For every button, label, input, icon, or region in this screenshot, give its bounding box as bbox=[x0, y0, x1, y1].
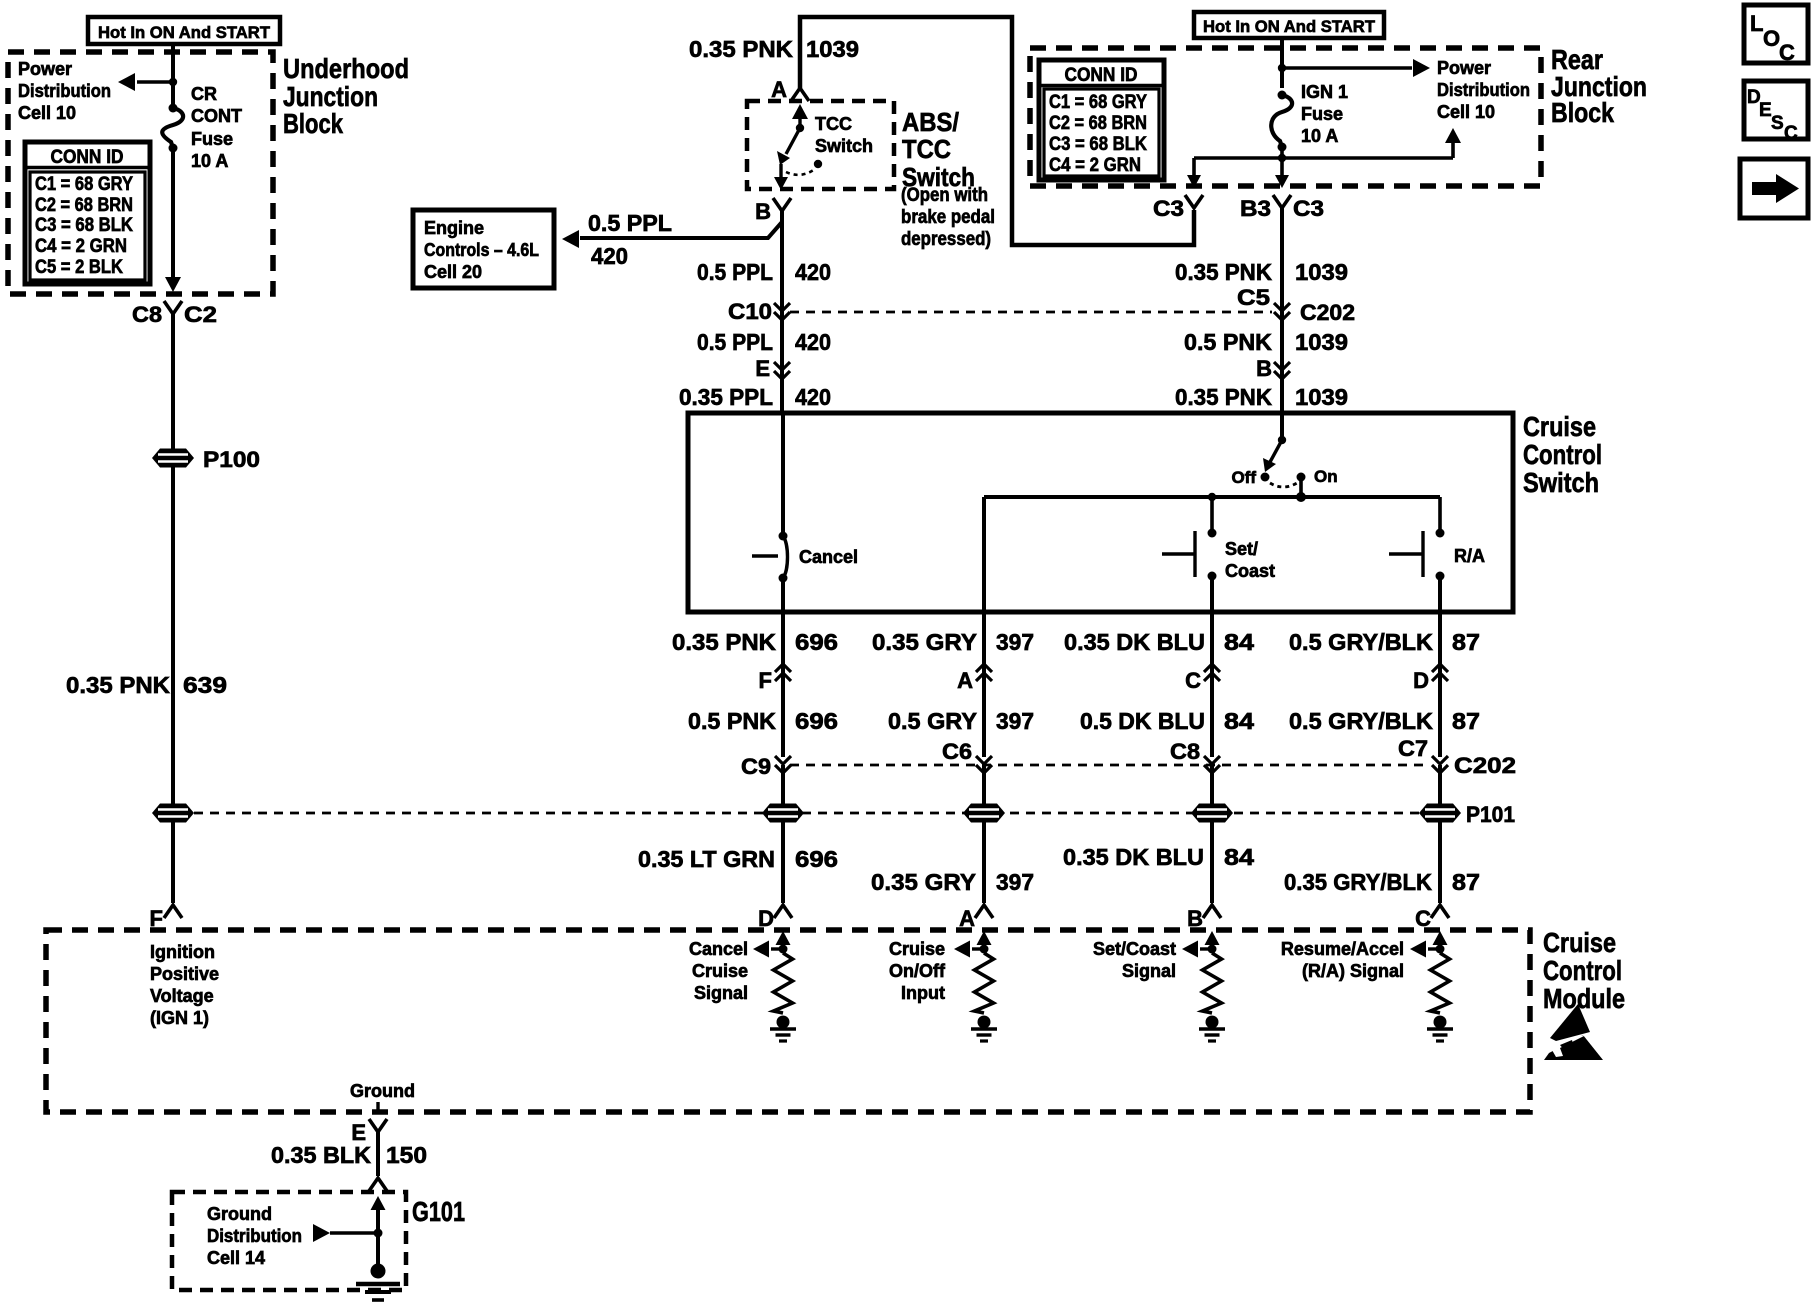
wire C8 to grommet bbox=[1210, 765, 1214, 805]
svg-text:0.5 GRY/BLK: 0.5 GRY/BLK bbox=[1289, 629, 1433, 655]
svg-text:Module: Module bbox=[1543, 983, 1625, 1014]
pin D (switch output) bbox=[1413, 664, 1448, 693]
svg-text:C3: C3 bbox=[1293, 196, 1324, 221]
svg-text:Set/Coast: Set/Coast bbox=[1093, 939, 1176, 959]
svg-text:C4 = 2 GRN: C4 = 2 GRN bbox=[1049, 155, 1141, 176]
wire label 0.5 PNK 1039 bbox=[1184, 329, 1348, 355]
in-line connector P100 bbox=[152, 447, 260, 472]
svg-text:696: 696 bbox=[795, 629, 838, 655]
node G101 junction bbox=[374, 1229, 383, 1238]
internal bus (on feed) bbox=[984, 495, 1440, 499]
switch R/A (resume/accel) bbox=[1389, 497, 1485, 612]
svg-text:420: 420 bbox=[795, 329, 831, 355]
svg-text:0.5 GRY: 0.5 GRY bbox=[888, 708, 977, 734]
svg-text:brake pedal: brake pedal bbox=[901, 207, 995, 228]
module input Resume/Accel: node bbox=[1436, 945, 1445, 954]
svg-text:(Open with: (Open with bbox=[901, 185, 988, 206]
svg-text:0.35 PNK: 0.35 PNK bbox=[689, 36, 793, 62]
ground (module Cancel) bbox=[770, 1016, 796, 1042]
module input Set/Coast: node bbox=[1208, 945, 1217, 954]
svg-text:C7: C7 bbox=[1398, 736, 1428, 761]
svg-text:Fuse: Fuse bbox=[1301, 104, 1343, 124]
svg-text:Cell 10: Cell 10 bbox=[18, 103, 76, 123]
pull-up resistor (Cancel) bbox=[774, 953, 793, 1013]
svg-text:Positive: Positive bbox=[150, 964, 219, 984]
wire label 0.35 DK BLU 84 bbox=[1064, 629, 1254, 655]
connector C8 at C202 bbox=[1170, 739, 1220, 773]
svg-text:Hot In ON And START: Hot In ON And START bbox=[98, 23, 271, 42]
svg-text:A: A bbox=[771, 77, 787, 102]
svg-text:E: E bbox=[1759, 100, 1772, 121]
wire B3 down to cruise switch bbox=[1280, 208, 1284, 413]
svg-text:0.35 GRY/BLK: 0.35 GRY/BLK bbox=[1284, 869, 1432, 895]
svg-text:1039: 1039 bbox=[1295, 384, 1348, 410]
wire label 0.35 GRY 397 bbox=[872, 629, 1034, 655]
wire On to bus bbox=[1296, 477, 1306, 502]
wire grommet to module pin A bbox=[982, 822, 986, 903]
svg-text:Switch: Switch bbox=[815, 136, 873, 156]
svg-text:Cancel: Cancel bbox=[689, 939, 748, 959]
svg-text:Cruise: Cruise bbox=[692, 961, 748, 981]
svg-text:397: 397 bbox=[996, 869, 1034, 895]
svg-text:F: F bbox=[759, 668, 772, 693]
wire label 0.35 GRY/BLK 87 bbox=[1284, 869, 1480, 895]
switch Cancel bbox=[752, 413, 858, 612]
forward arrow nav box bbox=[1740, 159, 1808, 218]
svg-text:C1 = 68 GRY: C1 = 68 GRY bbox=[35, 174, 133, 195]
svg-text:Distribution: Distribution bbox=[1437, 80, 1530, 100]
svg-text:Switch: Switch bbox=[1523, 467, 1599, 498]
svg-text:1039: 1039 bbox=[1295, 329, 1348, 355]
module input Set/Coast: signal arrow bbox=[1182, 941, 1212, 958]
svg-text:P100: P100 bbox=[203, 447, 260, 472]
svg-text:1039: 1039 bbox=[1295, 259, 1348, 285]
node On contact bbox=[1297, 467, 1338, 486]
svg-text:C6: C6 bbox=[942, 739, 972, 764]
module input Resume/Accel: entry arrow bbox=[1433, 931, 1448, 948]
LOC nav box bbox=[1744, 5, 1808, 65]
wire label 0.35 PNK 1039 (above switch) bbox=[1175, 384, 1348, 410]
wire label 0.5 PPL 420 (below B) bbox=[697, 259, 831, 285]
power feed box: Hot In ON And START (rear) bbox=[1194, 12, 1384, 38]
svg-text:On/Off: On/Off bbox=[889, 961, 946, 981]
wire label 0.35 GRY 397 bbox=[871, 869, 1034, 895]
svg-text:Underhood: Underhood bbox=[283, 53, 409, 84]
wire label 0.35 LT GRN 696 bbox=[638, 846, 838, 872]
wire label 0.35 PNK 696 bbox=[672, 629, 838, 655]
svg-text:C1 = 68 GRY: C1 = 68 GRY bbox=[1049, 92, 1147, 113]
svg-text:Cruise: Cruise bbox=[1543, 927, 1616, 958]
node junction at IGN1 fuse top bbox=[1278, 64, 1286, 72]
power feed box: Hot In ON And START (underhood) bbox=[88, 17, 280, 44]
pin D (cruise module) bbox=[758, 905, 792, 931]
wire label 0.35 PPL 420 bbox=[679, 384, 831, 410]
svg-text:D: D bbox=[1413, 668, 1429, 693]
label Cruise Control Module bbox=[1543, 927, 1625, 1014]
module input Set/Coast: entry arrow bbox=[1205, 931, 1220, 948]
wire 84 switch to C202 at C8 bbox=[1210, 612, 1214, 757]
ground (module Cruise) bbox=[971, 1016, 997, 1042]
switch on/off arm bbox=[1263, 413, 1286, 472]
label Underhood Junction Block bbox=[283, 53, 409, 139]
grommet P101 column B bbox=[1191, 804, 1233, 823]
svg-text:696: 696 bbox=[795, 846, 838, 872]
svg-text:C2: C2 bbox=[184, 302, 217, 327]
svg-text:C3 = 68 BLK: C3 = 68 BLK bbox=[35, 215, 133, 236]
svg-text:397: 397 bbox=[996, 629, 1034, 655]
svg-text:Fuse: Fuse bbox=[191, 129, 233, 149]
svg-text:Ground: Ground bbox=[207, 1204, 272, 1224]
svg-text:Power: Power bbox=[18, 59, 72, 79]
wire grommet to module pin C bbox=[1438, 822, 1442, 903]
svg-text:CONN ID: CONN ID bbox=[51, 147, 124, 168]
svg-text:C: C bbox=[1784, 123, 1798, 144]
node junction at CR CONT fuse top bbox=[169, 78, 177, 86]
svg-text:C5: C5 bbox=[1237, 285, 1270, 310]
svg-text:ABS/: ABS/ bbox=[902, 107, 959, 137]
wire label 0.5 GRY/BLK 87 bbox=[1289, 629, 1480, 655]
svg-text:0.35 GRY: 0.35 GRY bbox=[872, 629, 977, 655]
ABS/TCC switch dashed box bbox=[747, 101, 894, 189]
svg-text:84: 84 bbox=[1224, 629, 1254, 655]
svg-text:Cruise: Cruise bbox=[1523, 411, 1596, 442]
ground (module Set/Coast) bbox=[1199, 1016, 1225, 1042]
label IGN 1 Fuse 10 A bbox=[1301, 82, 1348, 146]
svg-text:150: 150 bbox=[386, 1142, 427, 1168]
svg-text:A: A bbox=[957, 668, 973, 693]
svg-text:87: 87 bbox=[1452, 629, 1480, 655]
svg-text:(IGN 1): (IGN 1) bbox=[150, 1008, 209, 1028]
exit arrow to B3 bbox=[1275, 158, 1289, 188]
svg-text:TCC: TCC bbox=[815, 114, 852, 134]
wire 87 switch to C202 at C7 bbox=[1438, 612, 1442, 757]
svg-text:Power: Power bbox=[1437, 58, 1491, 78]
node Off contact bbox=[1231, 468, 1269, 487]
svg-text:0.35 LT GRN: 0.35 LT GRN bbox=[638, 846, 775, 872]
svg-text:Control: Control bbox=[1543, 955, 1622, 986]
svg-text:84: 84 bbox=[1224, 844, 1254, 870]
svg-text:420: 420 bbox=[795, 259, 831, 285]
pin C (switch output) bbox=[1185, 664, 1220, 693]
wire from rear Hot feed bbox=[1280, 38, 1284, 88]
arrow from ground distribution bbox=[313, 1224, 378, 1242]
svg-text:0.35 PNK: 0.35 PNK bbox=[1175, 384, 1272, 410]
ESD sensitivity symbol bbox=[1544, 1004, 1603, 1060]
svg-text:0.35 PNK: 0.35 PNK bbox=[66, 672, 170, 698]
grommet P101 (left column) bbox=[152, 804, 194, 823]
connector C8/C2 (underhood block bottom) bbox=[132, 301, 217, 327]
module input Cancel: signal arrow bbox=[753, 941, 783, 958]
wire P100 down to P101 grommet bbox=[171, 467, 175, 804]
pin B (ABS/TCC switch) bbox=[755, 198, 791, 224]
pin A (switch output) bbox=[957, 664, 992, 693]
svg-text:Off: Off bbox=[1231, 468, 1256, 487]
label Rear Junction Block bbox=[1551, 44, 1647, 128]
wire label 0.5 PNK 696 bbox=[688, 708, 838, 734]
box Engine Controls - 4.6L Cell 20 bbox=[413, 210, 554, 288]
svg-text:Signal: Signal bbox=[694, 983, 748, 1003]
svg-text:On: On bbox=[1314, 467, 1338, 486]
connector B3/C3 (rear block) bbox=[1240, 195, 1324, 221]
wire C8/C2 down to P100 bbox=[171, 314, 175, 449]
svg-text:C2 = 68 BRN: C2 = 68 BRN bbox=[1049, 113, 1147, 134]
pull-up resistor (Cruise) bbox=[975, 953, 994, 1013]
svg-text:Cruise: Cruise bbox=[889, 939, 945, 959]
svg-text:Hot In ON And START: Hot In ON And START bbox=[1203, 17, 1376, 36]
fuse IGN 1 10 A bbox=[1271, 91, 1292, 152]
svg-text:Controls – 4.6L: Controls – 4.6L bbox=[424, 240, 539, 260]
label CR CONT Fuse 10 A bbox=[191, 84, 242, 171]
wire E to G101 bbox=[376, 1132, 380, 1176]
svg-text:Control: Control bbox=[1523, 439, 1602, 470]
module input Cruise: entry arrow bbox=[977, 931, 992, 948]
CONN ID table (underhood) bbox=[25, 142, 150, 284]
svg-text:Distribution: Distribution bbox=[18, 81, 111, 101]
svg-text:1039: 1039 bbox=[806, 36, 859, 62]
pull-up resistor (Resume/Accel) bbox=[1431, 953, 1450, 1013]
connector E (inline) bbox=[755, 356, 790, 381]
ground (module Resume/Accel) bbox=[1427, 1016, 1453, 1042]
wire B down through C10 to E to switch box bbox=[780, 211, 784, 413]
svg-text:B3: B3 bbox=[1240, 196, 1271, 221]
svg-text:Distribution: Distribution bbox=[207, 1226, 302, 1246]
label Cruise Control Switch bbox=[1523, 411, 1602, 498]
node fuse output junction bbox=[1278, 154, 1286, 162]
arrow up to power distribution cell 10 bbox=[1445, 128, 1461, 158]
connector C9 at C202 bbox=[741, 754, 791, 779]
svg-text:O: O bbox=[1763, 26, 1780, 51]
svg-text:C10: C10 bbox=[728, 299, 772, 324]
svg-text:0.5 PPL: 0.5 PPL bbox=[588, 210, 672, 236]
internal bus fuse output bbox=[1194, 147, 1453, 158]
svg-text:0.5 GRY/BLK: 0.5 GRY/BLK bbox=[1289, 708, 1433, 734]
wire branch B to Engine Controls with arrow bbox=[562, 222, 782, 248]
svg-text:depressed): depressed) bbox=[901, 229, 991, 250]
svg-text:C9: C9 bbox=[741, 754, 771, 779]
svg-text:B: B bbox=[1256, 356, 1272, 381]
ground G101 bbox=[356, 1264, 400, 1301]
svg-text:S: S bbox=[1771, 113, 1784, 134]
wire label 0.35 PNK 1039 (top) bbox=[689, 36, 859, 62]
svg-text:Set/: Set/ bbox=[1225, 539, 1258, 559]
wire label 0.35 BLK 150 bbox=[271, 1142, 427, 1168]
svg-text:E: E bbox=[755, 356, 770, 381]
wire fuse to C8/C2 with exit arrow bbox=[165, 148, 181, 292]
svg-text:P101: P101 bbox=[1466, 802, 1515, 827]
wire grommet to module pin F bbox=[171, 822, 175, 903]
cruise control switch box bbox=[688, 413, 1513, 612]
label TCC Switch (inside) bbox=[815, 114, 873, 156]
wire label 0.35 PNK 639 bbox=[66, 672, 227, 698]
wire net 1039: A up over and down to C3 bbox=[800, 17, 1194, 245]
label Resume/Accel (R/A) Signal bbox=[1281, 939, 1404, 981]
svg-text:0.35 PPL: 0.35 PPL bbox=[679, 384, 773, 410]
svg-text:Voltage: Voltage bbox=[150, 986, 214, 1006]
pin C (cruise module) bbox=[1415, 905, 1449, 931]
dashed arc off-on bbox=[1270, 483, 1297, 487]
connector C7 at C202 bbox=[1398, 736, 1448, 773]
module input Cancel: entry arrow bbox=[776, 931, 791, 948]
label ABS/TCC Switch bbox=[901, 107, 995, 250]
connector C3 (left, rear block) bbox=[1153, 195, 1203, 221]
wire label 0.35 PNK 1039 (below B3) bbox=[1175, 259, 1348, 285]
wire grommet to module pin D bbox=[781, 822, 785, 903]
grommet P101 column A bbox=[963, 804, 1005, 823]
dashed connector line C10-C5 (C202) bbox=[790, 311, 1272, 314]
svg-text:TCC: TCC bbox=[902, 134, 951, 164]
label Cruise On/Off Input bbox=[889, 939, 946, 1003]
svg-text:Engine: Engine bbox=[424, 218, 484, 238]
svg-text:0.35 DK BLU: 0.35 DK BLU bbox=[1064, 629, 1205, 655]
svg-text:10 A: 10 A bbox=[191, 151, 228, 171]
pin B (cruise module) bbox=[1187, 905, 1221, 931]
svg-text:C202: C202 bbox=[1300, 300, 1355, 325]
svg-text:Ground: Ground bbox=[350, 1081, 415, 1101]
svg-text:420: 420 bbox=[795, 384, 831, 410]
svg-text:10 A: 10 A bbox=[1301, 126, 1338, 146]
module input Cruise: signal arrow bbox=[954, 941, 984, 958]
wire label 0.35 DK BLU 84 bbox=[1063, 844, 1254, 870]
pin E (cruise module ground) bbox=[351, 1119, 387, 1145]
svg-text:0.5 PPL: 0.5 PPL bbox=[697, 259, 773, 285]
svg-text:Cell 14: Cell 14 bbox=[207, 1248, 265, 1268]
connector B (inline) bbox=[1256, 356, 1290, 381]
wire grommet to module pin B bbox=[1210, 822, 1214, 903]
svg-text:Cancel: Cancel bbox=[799, 547, 858, 567]
svg-text:87: 87 bbox=[1452, 869, 1480, 895]
svg-text:G101: G101 bbox=[412, 1196, 465, 1227]
wire label 0.5 GRY 397 bbox=[888, 708, 1034, 734]
svg-text:Block: Block bbox=[1551, 97, 1614, 128]
svg-text:397: 397 bbox=[996, 708, 1034, 734]
svg-text:639: 639 bbox=[183, 672, 227, 698]
rear junction block dashed box bbox=[1030, 48, 1541, 186]
svg-text:0.35 PNK: 0.35 PNK bbox=[1175, 259, 1272, 285]
svg-text:C2 = 68 BRN: C2 = 68 BRN bbox=[35, 195, 133, 216]
svg-text:84: 84 bbox=[1224, 708, 1254, 734]
svg-text:Resume/Accel: Resume/Accel bbox=[1281, 939, 1404, 959]
label Ground Distribution Cell 14 bbox=[207, 1204, 302, 1268]
svg-text:Signal: Signal bbox=[1122, 961, 1176, 981]
wire from Hot feed into underhood block bbox=[171, 44, 175, 106]
svg-text:Block: Block bbox=[283, 108, 343, 139]
svg-text:0.5 DK BLU: 0.5 DK BLU bbox=[1080, 708, 1205, 734]
ground distribution dashed box G101 bbox=[172, 1192, 465, 1290]
wire C7 to grommet bbox=[1438, 765, 1442, 805]
svg-text:C5 = 2 BLK: C5 = 2 BLK bbox=[35, 257, 123, 278]
wire bus left leg down to A out bbox=[982, 497, 986, 612]
pin A (cruise module) bbox=[959, 905, 993, 931]
label Power Distribution Cell 10 (underhood) bbox=[18, 59, 111, 123]
connector C10 bbox=[728, 299, 790, 324]
svg-text:CONN ID: CONN ID bbox=[1065, 65, 1138, 86]
pull-up resistor (Set/Coast) bbox=[1203, 953, 1222, 1013]
svg-text:Coast: Coast bbox=[1225, 561, 1275, 581]
wire label 0.5 GRY/BLK 87 bbox=[1289, 708, 1480, 734]
svg-text:Ignition: Ignition bbox=[150, 942, 215, 962]
pin F (switch output) bbox=[759, 664, 791, 693]
svg-text:0.5 PNK: 0.5 PNK bbox=[1184, 329, 1272, 355]
switch Set/Coast bbox=[1162, 493, 1275, 612]
grommet P101 column C bbox=[1419, 804, 1461, 823]
svg-text:C3 = 68 BLK: C3 = 68 BLK bbox=[1049, 134, 1147, 155]
pin A (ABS/TCC switch) bbox=[771, 77, 809, 102]
exit arrow to C3 (left) bbox=[1187, 158, 1201, 188]
fuse CR CONT 10 A bbox=[162, 104, 183, 153]
wire C9 to grommet bbox=[781, 765, 785, 805]
svg-text:L: L bbox=[1750, 11, 1763, 36]
svg-text:0.35 GRY: 0.35 GRY bbox=[871, 869, 976, 895]
svg-text:0.5 PNK: 0.5 PNK bbox=[688, 708, 776, 734]
svg-text:IGN 1: IGN 1 bbox=[1301, 82, 1348, 102]
svg-text:C202: C202 bbox=[1454, 753, 1516, 778]
dashed connector line C202 (lower) bbox=[790, 753, 1516, 778]
module input Cruise: node bbox=[980, 945, 989, 954]
svg-text:0.35 BLK: 0.35 BLK bbox=[271, 1142, 371, 1168]
wire 397 switch to C202 at C6 bbox=[982, 612, 986, 757]
svg-text:420: 420 bbox=[591, 243, 628, 269]
pin F (cruise module, IGN feed) bbox=[150, 905, 182, 931]
dashed pass-through line P101 bbox=[194, 802, 1515, 827]
underhood junction block dashed box bbox=[8, 52, 273, 294]
svg-text:Input: Input bbox=[901, 983, 945, 1003]
svg-text:R/A: R/A bbox=[1454, 546, 1485, 566]
svg-text:87: 87 bbox=[1452, 708, 1480, 734]
svg-text:696: 696 bbox=[795, 708, 838, 734]
module input Cancel: node bbox=[779, 945, 788, 954]
svg-text:CR: CR bbox=[191, 84, 217, 104]
module input Resume/Accel: signal arrow bbox=[1410, 941, 1440, 958]
svg-text:0.35 PNK: 0.35 PNK bbox=[672, 629, 776, 655]
wire arrow to Power Distribution (rear) bbox=[1282, 59, 1430, 77]
svg-text:Cell 20: Cell 20 bbox=[424, 262, 482, 282]
wire label 0.5 PPL 420 (to engine controls) bbox=[588, 210, 672, 269]
wire 696 switch to C202 at C9 bbox=[781, 612, 785, 757]
label Cancel Cruise Signal bbox=[689, 939, 748, 1003]
wire C6 to grommet bbox=[982, 765, 986, 805]
connector C6 at C202 bbox=[942, 739, 992, 773]
svg-text:C8: C8 bbox=[1170, 739, 1200, 764]
TCC switch arm and contacts bbox=[774, 104, 822, 190]
label Set/Coast Signal bbox=[1093, 939, 1176, 981]
svg-text:0.5 PPL: 0.5 PPL bbox=[697, 329, 773, 355]
svg-text:(R/A) Signal: (R/A) Signal bbox=[1302, 961, 1404, 981]
svg-text:C: C bbox=[1779, 40, 1795, 65]
svg-text:C3: C3 bbox=[1153, 196, 1184, 221]
svg-text:B: B bbox=[755, 199, 771, 224]
wire arrow to Power Distribution Cell 10 (left) bbox=[118, 73, 173, 91]
wire label 0.5 DK BLU 84 bbox=[1080, 708, 1254, 734]
svg-text:Cell 10: Cell 10 bbox=[1437, 102, 1495, 122]
svg-text:0.35 DK BLU: 0.35 DK BLU bbox=[1063, 844, 1204, 870]
svg-text:CONT: CONT bbox=[191, 106, 242, 126]
CONN ID table (rear) bbox=[1039, 60, 1164, 180]
connector into G101 bbox=[369, 1178, 387, 1268]
wire label 0.5 PPL 420 (below C10) bbox=[697, 329, 831, 355]
label Power Distribution Cell 10 (rear) bbox=[1437, 58, 1530, 122]
label Ignition Positive Voltage (IGN 1) bbox=[150, 942, 219, 1028]
cruise control module dashed box bbox=[46, 930, 1530, 1112]
svg-text:C4 = 2 GRN: C4 = 2 GRN bbox=[35, 236, 127, 257]
grommet P101 column D bbox=[762, 804, 804, 823]
label Ground (module pin E) bbox=[350, 1081, 415, 1112]
connector C5 at C202 bbox=[1237, 285, 1355, 325]
svg-text:C8: C8 bbox=[132, 302, 162, 327]
DESC nav box bbox=[1744, 81, 1808, 144]
svg-text:C: C bbox=[1185, 668, 1201, 693]
